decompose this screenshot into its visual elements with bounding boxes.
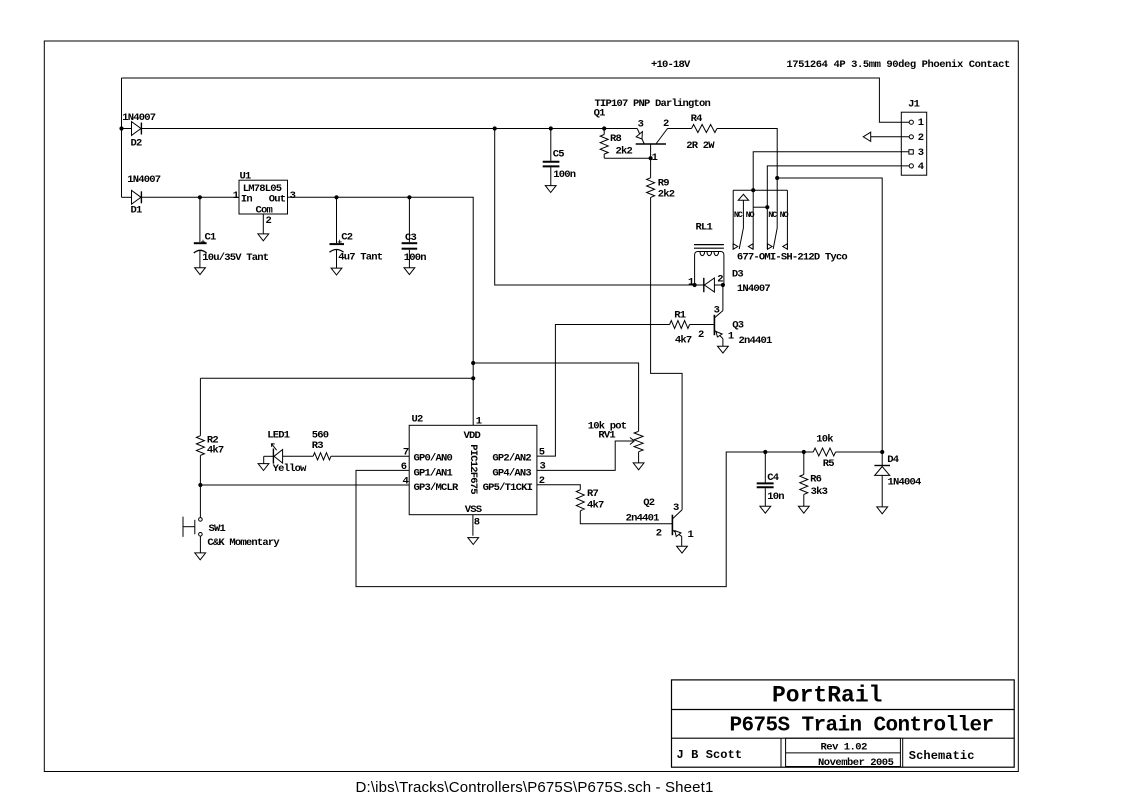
svg-text:+10-18V: +10-18V [651,59,691,71]
svg-text:100n: 100n [404,252,427,264]
ground Q2 emitter [677,546,688,553]
svg-text:C2: C2 [341,231,353,243]
ground R6 [798,506,809,513]
svg-text:1N4004: 1N4004 [888,477,922,489]
svg-text:GP3/MCLR: GP3/MCLR [414,482,460,494]
ground LED1 [258,464,269,471]
svg-text:LED1: LED1 [267,430,290,442]
svg-text:4k7: 4k7 [675,335,692,347]
svg-text:3k3: 3k3 [811,486,828,498]
wire D1 to U1 input [141,196,239,198]
svg-text:November 2005: November 2005 [818,757,894,769]
svg-text:NO: NO [780,210,789,220]
svg-text:R7: R7 [587,488,599,500]
ground C3 [404,268,415,275]
capacitor C4 10n [757,452,785,506]
svg-text:7: 7 [403,447,409,459]
svg-text:R4: R4 [691,113,703,125]
svg-text:4k7: 4k7 [587,499,604,511]
diode D2 1N4007 [122,112,156,149]
relay RL1 contacts 677-OMI-SH-212D [733,190,847,263]
svg-text:R8: R8 [610,133,622,145]
svg-text:10u/35V Tant: 10u/35V Tant [202,252,269,264]
svg-text:D2: D2 [131,137,143,149]
svg-text:2n4401: 2n4401 [739,335,773,347]
svg-text:R6: R6 [810,473,822,485]
transistor Q1 TIP107 PNP Darlington [594,98,711,164]
wire left input drop [121,78,123,197]
junction Q1 base / R9 [649,156,653,160]
svg-text:1: 1 [476,415,482,427]
wire GP1 net to C4/R5 node [356,452,813,587]
svg-text:P675S Train Controller: P675S Train Controller [730,714,994,737]
wire 5V to R2 [200,377,473,379]
svg-text:2: 2 [539,475,545,487]
junction R2/SW1/GP3 [198,483,202,487]
svg-text:GP5/T1CKI: GP5/T1CKI [483,482,533,494]
svg-text:R5: R5 [823,458,835,470]
junction C1 [198,195,202,199]
svg-text:3: 3 [290,190,296,202]
svg-text:1N4007: 1N4007 [127,174,161,186]
svg-text:4k7: 4k7 [207,444,224,456]
svg-text:2: 2 [918,132,924,144]
wire R4 to relay common pole 2 [717,129,777,250]
wire +V top rail to J1 pin 1 [122,78,910,122]
wire U2 pin8 VSS to ground [472,515,474,536]
svg-text:100n: 100n [553,169,576,181]
svg-text:RL1: RL1 [696,222,713,234]
resistor R1 4k7 [670,310,692,347]
svg-text:R1: R1 [674,310,686,322]
junction relay top / J1 pin3 net [751,188,755,192]
wire R8 to Q1 base [604,157,650,159]
svg-text:J1: J1 [908,98,920,110]
svg-text:C5: C5 [553,149,565,161]
switch SW1 C&K Momentary [183,517,280,553]
svg-text:5: 5 [539,447,545,459]
capacitor C2 4u7 Tant [330,197,383,268]
svg-text:J B Scott: J B Scott [677,748,743,762]
resistor R8 2k2 [600,129,632,159]
ground C2 [331,268,342,275]
svg-text:D3: D3 [732,268,744,280]
svg-text:3: 3 [714,305,720,317]
wire GP3 to switch node [200,484,409,486]
title block [672,680,1015,769]
svg-text:C1: C1 [205,231,217,243]
junction relay crosslink [765,205,769,209]
svg-text:1N4007: 1N4007 [122,112,156,124]
svg-text:U2: U2 [412,414,424,426]
svg-text:2: 2 [717,273,723,285]
svg-text:2: 2 [266,215,272,227]
svg-text:10k: 10k [816,433,833,445]
junction C2 [334,195,338,199]
wire J1 pin 3 to relay [753,152,909,190]
svg-text:In: In [241,193,253,205]
resistor R4 2R 2W [668,113,717,152]
junction coil left / D3 pin1 [693,283,697,287]
wire R1 to Q3 base [690,324,714,326]
junction R4 output / sense branch [775,176,779,180]
svg-text:2R 2W: 2R 2W [686,140,715,152]
svg-text:PortRail: PortRail [772,683,882,709]
ground D4 [877,507,888,514]
svg-text:GP1/AN1: GP1/AN1 [414,467,453,479]
svg-text:1: 1 [652,152,658,164]
svg-text:Out: Out [269,193,286,205]
svg-text:1: 1 [728,331,734,343]
svg-text:2k2: 2k2 [616,145,633,157]
ground C5 [545,186,556,193]
resistor R2 4k7 [196,378,224,517]
svg-text:U1: U1 [240,171,252,183]
svg-text:GP2/AN2: GP2/AN2 [492,452,531,464]
svg-text:2: 2 [698,329,704,341]
svg-text:SW1: SW1 [209,523,226,535]
wire R7 to Q2 base [580,511,672,524]
junction rail/C5 [549,126,553,130]
svg-text:4u7 Tant: 4u7 Tant [338,251,383,263]
potentiometer RV1 10k pot [588,420,643,463]
wire U1 pin2 to ground [262,214,264,234]
diode D1 1N4007 [122,174,161,217]
svg-text:10n: 10n [767,491,784,503]
svg-text:GP0/AN0: GP0/AN0 [414,452,453,464]
transistor Q3 2n4401 [698,285,772,347]
wire sense branch to R5/D4 node [777,178,882,452]
wire +V to relay coil / D3 [495,129,704,286]
junction R6 [802,450,806,454]
svg-text:TIP107 PNP Darlington: TIP107 PNP Darlington [595,98,711,110]
ground RV1 [633,463,644,470]
svg-text:3: 3 [638,118,644,130]
junction D4 [880,450,884,454]
junction C4 [763,450,767,454]
svg-text:1: 1 [233,190,239,202]
junction C3 [407,195,411,199]
ground Q3 emitter [718,346,729,353]
svg-text:1: 1 [688,529,694,541]
svg-text:2k2: 2k2 [658,188,675,200]
svg-text:VSS: VSS [465,504,482,516]
svg-text:Rev 1.02: Rev 1.02 [821,742,868,754]
resistor R7 4k7 [576,488,604,512]
svg-text:GP4/AN3: GP4/AN3 [492,467,531,479]
led LED1 Yellow [264,430,307,475]
wire R3 to GP0 [331,455,409,457]
resistor R3 560 [283,430,331,460]
svg-text:Q1: Q1 [594,108,606,120]
svg-text:3: 3 [918,147,924,159]
svg-text:D4: D4 [887,454,899,466]
svg-text:677-OMI-SH-212D Tyco: 677-OMI-SH-212D Tyco [737,251,848,263]
resistor R5 10k [813,433,882,470]
svg-text:3: 3 [673,502,679,514]
wire U1 out 5V rail [288,197,474,425]
svg-text:2: 2 [656,528,662,540]
svg-text:Schematic: Schematic [909,749,975,763]
junction coil right / D3 pin2 / Q3 [721,283,725,287]
svg-text:Q3: Q3 [732,319,744,331]
connector J1 [901,98,926,175]
svg-text:D1: D1 [131,205,143,217]
capacitor C3 100n [402,197,427,267]
diode D3 1N4007 [688,268,770,295]
sheet border [44,41,1018,772]
junction rail/relay-coil feed [493,126,497,130]
svg-text:PIC12F675: PIC12F675 [467,444,479,494]
wire D2 cathode rail [141,128,637,130]
junction input/D2 [119,126,123,130]
svg-text:8: 8 [474,516,480,528]
ground U2 VSS [468,538,479,545]
wire J1 pin 4 to relay [767,166,909,249]
svg-text:4: 4 [918,161,924,173]
svg-text:R3: R3 [312,440,324,452]
wire 5V to RV1 top [473,363,638,431]
ic U2 PIC12F675 [401,414,546,529]
wire J1 pin 2 stub with arrow [871,136,910,138]
svg-text:1: 1 [688,276,694,288]
svg-text:Q2: Q2 [643,497,655,509]
junction 5V/RV1 feed [471,361,475,365]
svg-text:1N4007: 1N4007 [737,283,771,295]
capacitor C1 10u/35V Tant [194,197,269,267]
wire R9 to Q2 collector [651,197,683,509]
relay RL1 coil [694,222,724,285]
svg-text:1: 1 [918,117,924,129]
svg-text:C3: C3 [405,232,417,244]
ground C4 [760,506,771,513]
svg-text:2n4401: 2n4401 [626,513,660,525]
ground C1 [195,268,206,275]
capacitor C5 100n [543,129,576,186]
regulator U1 LM78L05 [233,171,296,228]
svg-text:C&K Momentary: C&K Momentary [207,537,280,549]
wire RV1 wiper to GP4 [537,441,633,470]
diode D4 1N4004 [874,452,921,507]
ground SW1 [195,553,206,560]
svg-text:NC: NC [768,210,777,220]
junction 5V/R2 feed [471,376,475,380]
svg-text:D:\ibs\Tracks\Controllers\P675: D:\ibs\Tracks\Controllers\P675S\P675S.sc… [356,779,714,793]
transistor Q2 2n4401 [626,497,694,546]
junction rail/R8 [602,126,606,130]
resistor R6 3k3 [800,452,828,506]
svg-text:4: 4 [403,475,409,487]
svg-text:1751264 4P 3.5mm 90deg Phoenix: 1751264 4P 3.5mm 90deg Phoenix Contact [786,59,1010,71]
wire GP5 to R7 [537,485,580,490]
resistor R9 2k2 [647,158,675,200]
wire GP2 net to R1 [537,325,670,457]
svg-text:C4: C4 [767,472,779,484]
ground U1 [258,234,269,241]
svg-text:Yellow: Yellow [273,463,308,475]
svg-text:6: 6 [401,461,407,473]
svg-text:NC: NC [734,210,743,220]
svg-text:RV1: RV1 [598,429,615,441]
svg-text:VDD: VDD [464,430,481,442]
